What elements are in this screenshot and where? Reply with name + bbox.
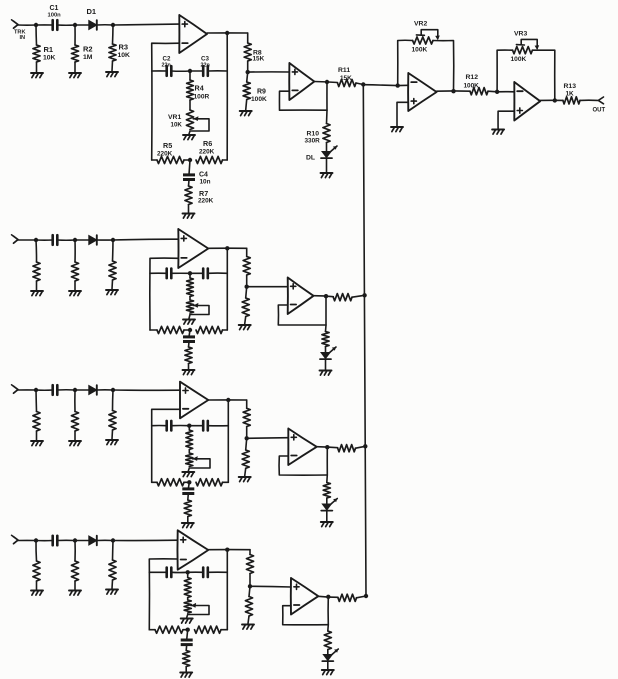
node buffer output bbox=[325, 80, 329, 84]
svg-text:C4: C4 bbox=[199, 172, 208, 179]
node R5/R6/C4 bbox=[187, 480, 191, 484]
node R8/R9 bbox=[246, 70, 250, 74]
node C2/C3/R4 bbox=[188, 271, 192, 275]
svg-text:220K: 220K bbox=[198, 198, 214, 205]
svg-text:C2: C2 bbox=[163, 56, 171, 63]
node C1/R2/D1 bbox=[73, 23, 77, 27]
svg-text:100R: 100R bbox=[194, 94, 210, 101]
wire op-amp output bbox=[207, 32, 248, 34]
wire mixer + input to ground bbox=[397, 102, 408, 126]
capacitor C2 ch2 bbox=[165, 269, 168, 279]
wire C2 to mid node bbox=[171, 425, 189, 427]
resistor R2 ch3 bbox=[74, 390, 76, 412]
wire op-amp output bbox=[208, 549, 250, 551]
LED DL ch3 bbox=[322, 504, 331, 510]
potentiometer VR1 ch4 bbox=[187, 598, 189, 601]
svg-text:15K: 15K bbox=[253, 56, 265, 63]
wire node2 to D1 bbox=[75, 389, 89, 391]
resistor R5 ch1 bbox=[152, 159, 157, 161]
ground R3 bbox=[106, 439, 118, 441]
wire node3 to op-amp + input bbox=[113, 238, 178, 241]
resistor R8 ch4 bbox=[249, 550, 251, 555]
ground mixer + input bbox=[391, 126, 403, 128]
wire op-amp output bbox=[208, 399, 246, 401]
wire op-amp - input to filter left side bbox=[149, 559, 177, 630]
wire C2 to mid node bbox=[171, 70, 190, 72]
svg-text:D1: D1 bbox=[87, 7, 97, 16]
wire filter right side bbox=[226, 550, 228, 630]
wire output down to R10 bbox=[326, 82, 329, 124]
wire LED to ground bbox=[325, 359, 327, 369]
capacitor C4 ch3 bbox=[188, 482, 189, 488]
resistor R9 ch1 bbox=[247, 72, 248, 82]
node R5/R6/C4 bbox=[188, 158, 192, 162]
op-amp U5 mixer bbox=[408, 73, 437, 111]
resistor R1 ch4 bbox=[35, 541, 38, 562]
wire bus to mixer inverting input bbox=[363, 84, 397, 87]
wire output down to R10 bbox=[326, 447, 329, 483]
resistor R10 ch2 bbox=[322, 332, 329, 347]
ground R2 bbox=[69, 72, 81, 74]
ground R9 bbox=[240, 110, 252, 112]
node input/R1 bbox=[34, 238, 38, 242]
node summing bus bbox=[363, 444, 367, 448]
node summing bus bbox=[364, 594, 368, 598]
wire buffer output bbox=[317, 447, 338, 448]
potentiometer VR1 ch3 bbox=[188, 450, 190, 454]
node R8/R9 bbox=[245, 285, 249, 289]
wire node3 to op-amp + input bbox=[113, 389, 180, 391]
ground VR1 bbox=[181, 618, 193, 620]
capacitor C4 ch4 bbox=[187, 630, 188, 640]
node C2/C3/R4 bbox=[186, 570, 190, 574]
node C2/C3/R4 bbox=[188, 69, 192, 73]
node mixer output bbox=[451, 89, 455, 93]
wire mixer output bbox=[437, 90, 470, 92]
svg-text:100K: 100K bbox=[511, 56, 527, 63]
svg-text:R11: R11 bbox=[338, 67, 350, 74]
svg-text:R13: R13 bbox=[564, 83, 577, 90]
svg-text:R4: R4 bbox=[195, 84, 204, 93]
input jack J4 bbox=[14, 537, 19, 544]
resistor R7 ch1 bbox=[188, 180, 191, 186]
resistor R3 ch2 bbox=[112, 240, 115, 261]
ground R9 bbox=[239, 476, 251, 478]
node output/filter right side bbox=[225, 548, 229, 552]
diode D1 ch4 bbox=[89, 536, 97, 545]
resistor R7 ch3 bbox=[187, 494, 190, 500]
node VR2 feedback / mixer - input bbox=[396, 83, 400, 87]
diode D1 ch2 bbox=[89, 236, 97, 245]
LED DL ch2 bbox=[321, 353, 330, 359]
capacitor C1 ch3 bbox=[51, 385, 54, 395]
capacitor C1 ch1 bbox=[51, 20, 54, 30]
resistor R8 ch3 bbox=[246, 400, 248, 408]
ground R3 bbox=[106, 71, 118, 73]
ground R3 bbox=[106, 589, 118, 591]
resistor R10 ch4 bbox=[324, 631, 331, 650]
op-amp U1a bbox=[179, 15, 207, 53]
wire D1 to node3 bbox=[97, 24, 113, 26]
capacitor C2 ch4 bbox=[165, 568, 168, 578]
svg-text:R12: R12 bbox=[466, 74, 479, 81]
wire node2 to D1 bbox=[75, 24, 89, 26]
wire output down to R10 bbox=[327, 596, 330, 631]
wire filter top row left bbox=[150, 272, 167, 274]
wire filter right side bbox=[227, 400, 229, 482]
node D1/R3 bbox=[111, 388, 115, 392]
wire node3 to op-amp + input bbox=[113, 23, 179, 26]
resistor R7 ch2 bbox=[188, 342, 191, 347]
op-amp U2b buffer bbox=[288, 278, 314, 315]
resistor R6 ch1 bbox=[196, 156, 223, 163]
ground VR1 bbox=[183, 319, 195, 321]
resistor R11 ch1 bbox=[338, 79, 357, 86]
svg-text:100n: 100n bbox=[48, 13, 62, 19]
svg-text:10K: 10K bbox=[118, 52, 131, 59]
capacitor C1 ch2 bbox=[51, 235, 54, 245]
resistor R12 bbox=[470, 88, 488, 95]
wire output down to R10 bbox=[325, 296, 328, 332]
svg-text:R6: R6 bbox=[203, 139, 212, 148]
svg-text:1M: 1M bbox=[83, 54, 93, 61]
node C1/R2/D1 bbox=[73, 388, 77, 392]
wire C2 to mid node bbox=[171, 571, 187, 573]
svg-text:C3: C3 bbox=[201, 56, 209, 63]
op-amp U1b buffer bbox=[289, 63, 314, 100]
wire op-amp - input to filter left side bbox=[150, 258, 179, 330]
wire LED to ground bbox=[326, 511, 328, 521]
node D1/R3 bbox=[111, 23, 115, 27]
wire filter top row left bbox=[152, 70, 167, 72]
resistor R4 ch1 bbox=[189, 71, 191, 80]
node R5/R6/C4 bbox=[186, 628, 190, 632]
capacitor C3 ch3 bbox=[189, 425, 203, 427]
wire filter top row left bbox=[152, 425, 167, 427]
potentiometer VR1 ch2 bbox=[189, 297, 191, 301]
svg-text:VR1: VR1 bbox=[168, 114, 181, 121]
resistor R6 ch2 bbox=[196, 326, 223, 333]
wire input rail bbox=[18, 239, 36, 241]
capacitor C3 ch1 bbox=[190, 70, 203, 72]
ground LED bbox=[322, 669, 334, 671]
wire buffer feedback loop bbox=[279, 91, 327, 110]
svg-text:10n: 10n bbox=[200, 179, 211, 186]
wire buffer feedback loop bbox=[278, 305, 326, 325]
resistor R11 ch4 bbox=[338, 594, 357, 601]
node input/R1 bbox=[34, 388, 38, 392]
op-amp U3b buffer bbox=[288, 429, 316, 466]
op-amp U6 output amp bbox=[514, 82, 540, 121]
resistor R3 ch3 bbox=[112, 390, 115, 411]
wire R8/R9 node to buffer + input bbox=[247, 286, 288, 288]
wire C1 to node2 bbox=[57, 389, 75, 391]
diode D1 ch3 bbox=[89, 386, 97, 395]
resistor R3 ch4 bbox=[112, 541, 115, 561]
op-amp U4a bbox=[177, 530, 208, 569]
svg-text:220K: 220K bbox=[157, 151, 173, 158]
resistor R11 ch2 bbox=[333, 294, 352, 301]
wire output amp output bbox=[540, 99, 563, 101]
capacitor C3 ch4 bbox=[188, 571, 204, 573]
node summing bus bbox=[362, 293, 366, 297]
input jack J3 bbox=[14, 386, 19, 393]
wire op-amp - input to filter left side bbox=[152, 409, 180, 482]
node R8/R9 bbox=[248, 584, 252, 588]
resistor R4 ch3 bbox=[188, 426, 190, 430]
wire op-amp output bbox=[208, 247, 246, 249]
wire buffer output bbox=[318, 596, 338, 597]
wire C2 to mid node bbox=[171, 272, 190, 274]
wire VR2 right to mixer output bbox=[433, 41, 454, 92]
svg-text:22n: 22n bbox=[162, 63, 171, 69]
output jack OUT bbox=[598, 97, 603, 104]
svg-text:R2: R2 bbox=[83, 45, 93, 54]
ground R7 bbox=[183, 369, 195, 371]
wire R8/R9 node to buffer + input bbox=[250, 585, 291, 588]
node C2/C3/R4 bbox=[187, 424, 191, 428]
svg-text:220K: 220K bbox=[199, 149, 215, 156]
wire buffer feedback loop bbox=[283, 606, 329, 625]
svg-text:R1: R1 bbox=[44, 45, 54, 54]
wire input rail bbox=[18, 24, 36, 26]
resistor R13 bbox=[563, 97, 580, 104]
diode D1 ch1 bbox=[89, 21, 97, 30]
svg-text:IN: IN bbox=[20, 35, 26, 41]
svg-text:C1: C1 bbox=[50, 5, 59, 12]
ground VR1 bbox=[183, 134, 195, 136]
LED DL ch4 bbox=[323, 655, 332, 661]
ground R2 bbox=[69, 440, 81, 442]
wire to C1 bbox=[36, 239, 53, 241]
ground R2 bbox=[69, 590, 81, 592]
svg-text:100K: 100K bbox=[251, 96, 267, 103]
wire to C1 bbox=[36, 389, 53, 391]
wire C3 to filter right side bbox=[208, 425, 229, 427]
node C1/R2/D1 bbox=[73, 238, 77, 242]
wire C1 to node2 bbox=[57, 539, 75, 541]
op-amp U4b buffer bbox=[291, 578, 319, 615]
wire D1 to node3 bbox=[97, 539, 113, 541]
wire filter right side bbox=[226, 248, 228, 330]
wire D1 to node3 bbox=[97, 389, 113, 391]
wire VR3 right to output bbox=[532, 50, 554, 100]
resistor R10 ch3 bbox=[323, 483, 330, 499]
LED DL ch1 bbox=[322, 152, 331, 158]
resistor R6 ch3 bbox=[196, 479, 223, 486]
op-amp U3a bbox=[180, 382, 208, 419]
resistor R6 ch4 bbox=[195, 626, 222, 633]
wire R12 to output amp - input bbox=[488, 90, 514, 93]
ground LED bbox=[321, 172, 333, 174]
ground output amp + input bbox=[492, 129, 504, 131]
svg-text:R10: R10 bbox=[307, 131, 320, 138]
potentiometer VR3 bbox=[497, 50, 512, 92]
svg-text:1K: 1K bbox=[566, 91, 575, 98]
resistor R11 ch3 bbox=[338, 445, 356, 452]
resistor R10 ch1 bbox=[323, 124, 330, 143]
node output/filter right side bbox=[225, 246, 229, 250]
wire input rail bbox=[18, 539, 36, 541]
wire C1 to node2 bbox=[57, 24, 75, 26]
ground R3 bbox=[106, 289, 118, 291]
node output amp output bbox=[553, 98, 557, 102]
potentiometer VR1 ch1 bbox=[189, 100, 191, 110]
svg-text:R5: R5 bbox=[163, 141, 172, 150]
ground R7 bbox=[180, 672, 192, 674]
wire C3 to filter right side bbox=[208, 70, 227, 72]
wire node2 to D1 bbox=[75, 239, 89, 241]
wire node2 to D1 bbox=[75, 540, 89, 542]
wire R13 to output jack bbox=[580, 99, 598, 101]
capacitor C3 ch2 bbox=[190, 272, 203, 274]
resistor R8 ch2 bbox=[246, 248, 248, 256]
node input/R1 bbox=[34, 23, 38, 27]
capacitor C4 ch2 bbox=[189, 330, 190, 337]
capacitor C1 ch4 bbox=[51, 536, 54, 545]
wire buffer output bbox=[314, 82, 337, 83]
node D1/R3 bbox=[111, 238, 115, 242]
svg-text:330R: 330R bbox=[305, 138, 321, 145]
wire filter top row left bbox=[149, 571, 166, 573]
capacitor C4 ch1 bbox=[189, 160, 190, 175]
input jack J1 bbox=[14, 21, 19, 28]
node VR3 feedback / - input bbox=[495, 90, 499, 94]
svg-text:R9: R9 bbox=[257, 89, 266, 96]
wire buffer output bbox=[314, 296, 334, 297]
ground LED bbox=[320, 370, 332, 372]
wire summing bus vertical bbox=[363, 85, 366, 597]
wire to C1 bbox=[36, 540, 53, 542]
ground R1 bbox=[31, 440, 43, 442]
wire buffer feedback loop bbox=[279, 456, 327, 475]
ground R9 bbox=[242, 624, 254, 626]
potentiometer VR2 bbox=[398, 40, 413, 85]
node D1/R3 bbox=[111, 538, 115, 542]
ground R9 bbox=[239, 324, 251, 326]
capacitor C2 ch3 bbox=[165, 421, 168, 431]
svg-text:OUT: OUT bbox=[593, 108, 606, 114]
wire LED to ground bbox=[327, 661, 329, 669]
ground LED bbox=[321, 521, 333, 523]
node R5/R6/C4 bbox=[188, 328, 192, 332]
resistor R5 ch4 bbox=[149, 629, 155, 631]
svg-text:15K: 15K bbox=[340, 75, 352, 82]
resistor R9 ch4 bbox=[249, 586, 250, 596]
wire filter right side bbox=[226, 33, 228, 160]
wire D1 to node3 bbox=[97, 239, 113, 241]
wire VR1 to ground bbox=[189, 315, 190, 319]
wire R8/R9 node to buffer + input bbox=[247, 437, 289, 440]
resistor R1 ch2 bbox=[35, 240, 38, 262]
wire op-amp - input to filter left side bbox=[152, 43, 180, 160]
resistor R8 ch1 bbox=[247, 33, 249, 43]
svg-text:10K: 10K bbox=[43, 55, 56, 62]
resistor R3 ch1 bbox=[112, 25, 115, 44]
resistor R5 ch3 bbox=[152, 481, 157, 483]
resistor R4 ch2 bbox=[189, 273, 191, 278]
wire mixer - input bbox=[398, 84, 409, 86]
ground R1 bbox=[31, 72, 43, 74]
ground VR1 bbox=[182, 471, 194, 473]
op-amp U2a bbox=[178, 229, 208, 268]
wire output amp + input to ground bbox=[498, 111, 514, 128]
wire to C1 bbox=[36, 24, 53, 26]
resistor R2 ch1 bbox=[74, 25, 76, 45]
resistor R1 ch1 bbox=[35, 25, 38, 45]
svg-text:10K: 10K bbox=[171, 122, 183, 129]
svg-text:100K: 100K bbox=[412, 47, 428, 54]
ground R7 bbox=[182, 522, 194, 524]
resistor R5 ch2 bbox=[150, 329, 157, 331]
wire VR1 to ground bbox=[189, 131, 190, 134]
node input/R1 bbox=[34, 538, 38, 542]
resistor R4 ch4 bbox=[187, 572, 189, 577]
node summing bus bbox=[361, 82, 365, 86]
ground R1 bbox=[31, 290, 43, 292]
wire node3 to op-amp + input bbox=[113, 539, 178, 541]
resistor R9 ch3 bbox=[246, 438, 247, 450]
ground R2 bbox=[69, 290, 81, 292]
resistor R1 ch3 bbox=[35, 390, 38, 412]
ground R1 bbox=[31, 590, 43, 592]
wire input rail bbox=[18, 389, 36, 391]
svg-text:VR2: VR2 bbox=[414, 21, 427, 28]
wire VR1 to ground bbox=[187, 615, 188, 618]
svg-text:22n: 22n bbox=[201, 63, 210, 69]
wire C1 to node2 bbox=[57, 239, 75, 241]
node R8/R9 bbox=[245, 436, 249, 440]
node buffer output bbox=[326, 595, 330, 599]
input jack J2 bbox=[14, 236, 19, 243]
wire LED to ground bbox=[326, 158, 328, 172]
node output/filter right side bbox=[225, 31, 229, 35]
resistor R2 ch4 bbox=[74, 541, 76, 562]
wire C3 to filter right side bbox=[208, 571, 228, 573]
capacitor C2 ch1 bbox=[165, 66, 168, 76]
resistor R2 ch2 bbox=[74, 240, 76, 262]
svg-text:100K: 100K bbox=[464, 83, 480, 90]
node output/filter right side bbox=[226, 398, 230, 402]
wire R8/R9 node to buffer + input bbox=[248, 71, 290, 73]
wire C3 to filter right side bbox=[208, 272, 228, 274]
node buffer output bbox=[324, 294, 328, 298]
resistor R9 ch2 bbox=[246, 287, 247, 298]
wire VR1 to ground bbox=[188, 468, 189, 471]
node C1/R2/D1 bbox=[73, 538, 77, 542]
node buffer output bbox=[325, 445, 329, 449]
ground R7 bbox=[183, 213, 195, 215]
resistor R7 ch4 bbox=[185, 645, 188, 651]
svg-text:DL: DL bbox=[306, 155, 315, 162]
svg-text:VR3: VR3 bbox=[514, 31, 527, 38]
svg-text:R3: R3 bbox=[119, 43, 129, 52]
